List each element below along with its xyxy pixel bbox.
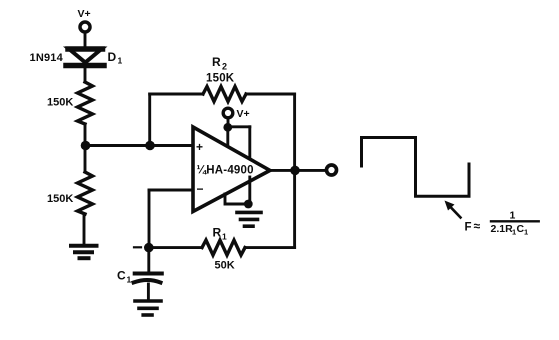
resistor R1 50K (horizontal) (202, 240, 245, 255)
wire R2 left vertical corner is node B up; horizontal R2 net (150, 93, 203, 96)
svg-text:≈: ≈ (474, 219, 481, 233)
wire down right side through op-amp (248, 127, 251, 158)
output rail vertical (293, 94, 296, 248)
wire R1 right to output rail (245, 246, 295, 249)
svg-text:C: C (117, 269, 126, 283)
terminal V+ (op-amp supply) (223, 108, 233, 118)
wire node C to R1 (149, 246, 202, 249)
svg-text:+: + (196, 140, 203, 154)
svg-text:−: − (197, 182, 204, 196)
wire dot right (228, 125, 250, 128)
wire V+ terminal to dot (227, 118, 230, 127)
node B junction dot (145, 141, 155, 151)
svg-text:¼HA-4900: ¼HA-4900 (197, 165, 254, 177)
wire diode to resistor (84, 66, 87, 83)
wire resistor to node A (84, 124, 87, 146)
wire resistor to ground (83, 214, 86, 244)
ground (C1) (135, 301, 161, 315)
wire dot into op-amp top (226, 127, 229, 146)
wire op-amp bottom pin (225, 194, 248, 204)
node C junction dot (C1 / R1) (144, 243, 154, 253)
diode D1 (66, 49, 104, 66)
wire V+ terminal to diode (84, 33, 87, 47)
svg-text:D: D (108, 50, 117, 64)
ground (op-amp) (237, 212, 261, 226)
svg-text:1: 1 (222, 232, 227, 242)
wire op-amp output (270, 169, 326, 172)
arrow to waveform (445, 201, 461, 218)
terminal V+ (top left) (80, 22, 90, 32)
wire node A down to lower resistor (84, 146, 87, 173)
wire R2 right to output rail (246, 93, 295, 96)
svg-text:V+: V+ (237, 108, 250, 120)
svg-text:50K: 50K (215, 260, 235, 272)
resistor R2 150K (horizontal) (203, 87, 246, 102)
svg-text:1: 1 (118, 56, 123, 66)
node output junction dot (290, 166, 300, 176)
wire C1 to ground (147, 284, 150, 299)
op-amp U1 (193, 127, 270, 212)
svg-text:1: 1 (510, 210, 516, 222)
svg-text:150K: 150K (206, 73, 235, 85)
svg-text:1: 1 (524, 228, 528, 237)
wire node B to op-amp + input (150, 144, 193, 147)
svg-text:R: R (213, 226, 222, 240)
svg-text:2.1R: 2.1R (491, 223, 514, 235)
resistor 150K (lower left, vertical) (78, 172, 93, 214)
formula F ~ 1/(2.1 R1 C1) (465, 210, 539, 237)
svg-text:1N914: 1N914 (30, 52, 64, 64)
svg-text:150K: 150K (47, 97, 73, 109)
wire node A to node B (+ input net) (86, 144, 151, 147)
wire node B up to R2 (148, 94, 151, 146)
ground (left divider) (71, 246, 97, 258)
waveform square wave (362, 138, 470, 197)
terminal output (327, 165, 337, 175)
svg-text:R: R (212, 55, 221, 69)
resistor 150K (upper left, vertical) (78, 82, 93, 124)
wire op-amp - input (149, 189, 193, 192)
capacitor C1 (134, 274, 162, 283)
svg-text:150K: 150K (47, 193, 73, 205)
node V+ dot (223, 123, 232, 132)
svg-text:2: 2 (222, 62, 227, 72)
svg-text:1: 1 (127, 275, 132, 285)
wire node C down to C1 (147, 248, 150, 271)
wire stub left of node C (134, 246, 141, 248)
svg-text:V+: V+ (78, 8, 91, 20)
node ground dot (244, 200, 253, 209)
svg-text:F: F (465, 222, 472, 234)
node A junction dot (81, 141, 91, 151)
wire - input down to node C (148, 190, 151, 248)
